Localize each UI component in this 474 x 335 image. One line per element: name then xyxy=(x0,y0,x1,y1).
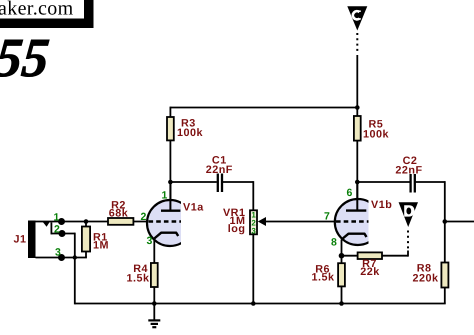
capacitor C1 xyxy=(218,174,222,193)
svg-text:22k: 22k xyxy=(360,266,380,278)
wire jack pin3 row xyxy=(36,257,87,259)
wire R1 vertical xyxy=(85,222,87,258)
resistor R2 xyxy=(108,218,133,225)
svg-text:V1a: V1a xyxy=(183,202,204,214)
wire C2 right segment xyxy=(416,181,445,183)
wire input row xyxy=(36,221,148,223)
svg-text:7: 7 xyxy=(324,211,330,223)
wire C1 right segment xyxy=(223,181,253,183)
wire R7 row xyxy=(342,255,409,257)
svg-text:J1: J1 xyxy=(14,234,27,246)
svg-text:1: 1 xyxy=(54,212,60,224)
svg-text:22nF: 22nF xyxy=(206,164,233,176)
svg-text:2: 2 xyxy=(54,224,60,236)
resistor R8 xyxy=(441,263,448,288)
wire output stub xyxy=(445,221,474,223)
wire C2 left segment xyxy=(357,181,409,183)
node C junction xyxy=(355,105,360,110)
wire C1 left segment xyxy=(170,181,216,183)
resistor R3 xyxy=(167,117,174,140)
svg-text:3: 3 xyxy=(251,226,256,235)
svg-text:8: 8 xyxy=(331,237,337,249)
svg-text:1.5k: 1.5k xyxy=(311,272,335,284)
ground xyxy=(148,304,160,328)
svg-text:22nF: 22nF xyxy=(395,165,422,177)
svg-text:1.5k: 1.5k xyxy=(126,273,150,285)
wire bottom rail xyxy=(75,303,446,305)
resistor R5 xyxy=(354,116,361,141)
wire V1a cathode drop xyxy=(153,239,155,304)
triode V1b xyxy=(335,182,381,245)
wire VR1 vertical xyxy=(252,181,254,303)
node ground rail junction at R4 xyxy=(152,301,157,306)
svg-text:68k: 68k xyxy=(109,208,129,220)
terminal D xyxy=(399,202,418,250)
wire right side vertical xyxy=(444,181,446,303)
svg-text:6: 6 xyxy=(347,187,353,199)
wire left anode branch xyxy=(169,107,171,211)
wire stub to terminal D xyxy=(407,251,409,257)
node ground rail junction at R6 xyxy=(339,301,344,306)
logo box (ampmaker.com, cropped) xyxy=(0,0,89,23)
wire jack pin2 horizontal xyxy=(51,233,74,235)
resistor R7 xyxy=(358,252,382,259)
svg-text:55: 55 xyxy=(0,27,52,88)
svg-text:3: 3 xyxy=(147,235,153,247)
svg-text:3: 3 xyxy=(55,247,61,259)
wire VR1 wiper xyxy=(264,221,335,223)
svg-text:100k: 100k xyxy=(177,127,204,139)
svg-text:2: 2 xyxy=(141,211,147,223)
svg-text:1M: 1M xyxy=(93,240,109,252)
potentiometer VR1 xyxy=(250,210,257,234)
resistor R6 xyxy=(338,263,345,286)
node V1a anode junction xyxy=(168,180,173,185)
connector J1 body xyxy=(28,221,36,259)
node V1b cathode junction xyxy=(339,253,345,259)
capacitor C2 xyxy=(411,174,415,193)
node output junction xyxy=(443,219,448,224)
svg-text:1: 1 xyxy=(162,190,168,202)
resistor R1 xyxy=(82,227,90,252)
svg-text:aker.com: aker.com xyxy=(0,0,74,20)
node J1 pin2 xyxy=(59,230,66,237)
node pin2/pin3 junction xyxy=(73,255,77,259)
svg-text:log: log xyxy=(228,223,246,235)
J1 switch contact xyxy=(43,222,50,227)
resistor R4 xyxy=(151,263,158,287)
svg-text:100k: 100k xyxy=(363,129,390,141)
wire jack pin2 vertical to rail xyxy=(74,233,76,305)
wire top rail xyxy=(170,107,357,109)
node J1 pin3 xyxy=(58,254,65,261)
node J1 pin1 xyxy=(58,218,65,225)
node R1 top junction xyxy=(84,219,89,224)
node V1b anode junction xyxy=(355,180,360,185)
triode V1a xyxy=(147,182,193,246)
svg-text:220k: 220k xyxy=(412,273,439,285)
wire V1b cathode drop xyxy=(341,240,343,304)
node VR1 bottom junction xyxy=(251,301,256,306)
terminal C xyxy=(347,6,367,107)
wire right anode branch xyxy=(356,107,358,211)
svg-text:V1b: V1b xyxy=(371,199,392,211)
